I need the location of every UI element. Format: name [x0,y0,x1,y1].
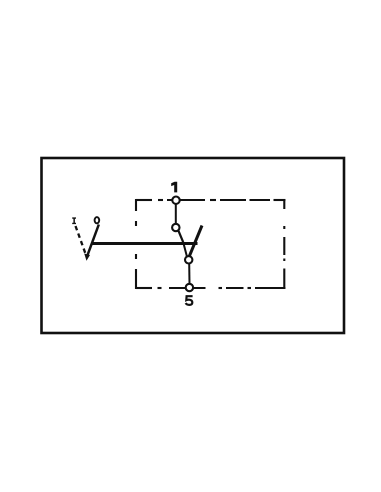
toggle pivot tip [84,254,90,261]
terminal 5 contact circle [186,284,193,291]
wire: pivot contact to terminal 5 [188,264,190,285]
pivot contact circle [185,256,192,263]
switch body outline [42,158,345,333]
label terminal 1 [171,182,177,193]
wire: actuator rod (horizontal) [92,242,198,245]
contact enclosure right edge (chain line) [283,199,285,289]
contact enclosure top edge (chain line) [136,199,285,201]
switch lever [189,226,202,257]
label position I [72,217,76,224]
wire: fork arm to pivot contact [184,245,187,257]
toggle position 0 (solid lever) [87,225,99,257]
toggle position I (dashed lever) [76,226,86,255]
label position 0 [95,217,100,223]
contact enclosure left edge (chain line) [135,199,137,289]
upper moving contact circle [172,224,179,231]
wire: moving contact stub from upper contact [178,230,183,242]
contact enclosure bottom edge (chain line) [136,287,285,289]
label terminal 5 [186,296,193,305]
terminal 1 contact circle [172,197,179,204]
wire: terminal 1 to upper contact [175,204,177,225]
